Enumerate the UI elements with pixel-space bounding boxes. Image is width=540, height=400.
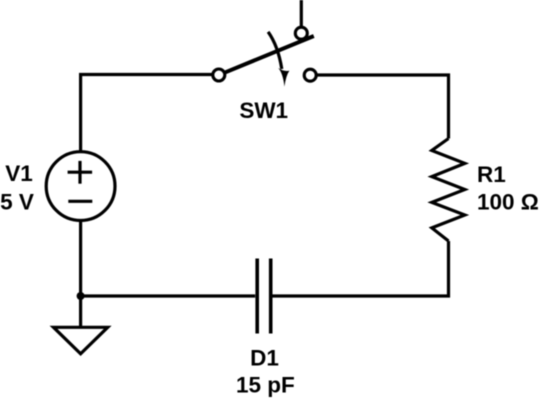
svg-text:100 Ω: 100 Ω bbox=[477, 189, 539, 214]
svg-text:R1: R1 bbox=[477, 162, 506, 187]
svg-text:V1: V1 bbox=[5, 161, 33, 186]
svg-text:SW1: SW1 bbox=[239, 98, 288, 123]
svg-text:15 pF: 15 pF bbox=[236, 372, 295, 397]
svg-text:5 V: 5 V bbox=[0, 190, 34, 215]
svg-text:D1: D1 bbox=[250, 345, 279, 370]
